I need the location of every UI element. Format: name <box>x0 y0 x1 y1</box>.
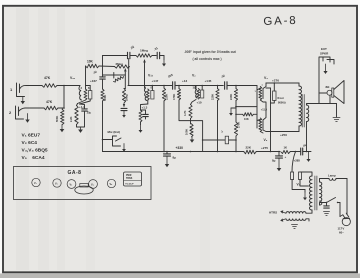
svg-text:+285: +285 <box>294 159 301 163</box>
svg-text:V₂: V₂ <box>55 183 58 186</box>
svg-text:60~: 60~ <box>339 231 344 235</box>
wire to bus <box>102 112 104 152</box>
svg-text:HTRS: HTRS <box>269 211 277 215</box>
core <box>314 176 316 210</box>
svg-text:.005″ input given for 3½watts: .005″ input given for 3½watts out <box>184 50 237 54</box>
svg-text:( all controls max ): ( all controls max ) <box>193 57 222 61</box>
svg-text:4.7K: 4.7K <box>183 110 187 116</box>
ground at tone cap <box>163 56 165 60</box>
AC plug <box>343 213 349 218</box>
svg-text:PWR: PWR <box>126 175 132 177</box>
core <box>301 95 303 128</box>
V1a cathode network 2.2K + 25uF <box>78 100 86 104</box>
bottom grey strip outside frame <box>0 274 360 278</box>
svg-text:+276: +276 <box>272 79 279 83</box>
svg-text:22K: 22K <box>246 146 252 150</box>
svg-text:2.2K: 2.2K <box>69 116 73 122</box>
svg-text:V₃,V₄ 6BQ5: V₃,V₄ 6BQ5 <box>22 148 48 154</box>
wire to node <box>57 85 64 87</box>
screen resistor box <box>273 91 276 101</box>
resistor 220K plate V2 <box>217 85 219 87</box>
heater winding <box>286 212 306 214</box>
svg-text:+11.5: +11.5 <box>261 108 268 111</box>
upper link wire <box>236 106 257 108</box>
svg-text:+167: +167 <box>90 79 97 83</box>
ground of divider <box>230 108 232 113</box>
svg-text:GA-8: GA-8 <box>68 170 82 176</box>
wire J-node to V1a <box>64 85 80 87</box>
svg-text:10K: 10K <box>87 60 94 64</box>
screen bus vertical <box>270 88 272 152</box>
svg-text:+1.3: +1.3 <box>142 106 148 110</box>
V1a plate riser <box>85 66 87 86</box>
svg-text:EXT: EXT <box>321 47 327 51</box>
wiper arrow of 1 Meg to V1b grid <box>144 61 146 89</box>
svg-text:V₃: V₃ <box>70 184 73 187</box>
divider tap wire to bus <box>191 121 203 152</box>
resistor 220K divider <box>235 85 237 87</box>
wiper of 2 Meg <box>124 72 126 89</box>
speaker cutout oval <box>75 186 93 194</box>
svg-text:25μ: 25μ <box>87 112 92 115</box>
ground below 500K <box>61 125 63 130</box>
svg-text:+250: +250 <box>280 133 287 137</box>
secondary <box>307 105 309 122</box>
svg-text:1Meg: 1Meg <box>140 49 148 53</box>
chassis layout box <box>14 167 152 200</box>
tube socket V5 <box>107 179 115 187</box>
speaker return and earth ground <box>329 95 331 103</box>
power switch <box>320 203 327 206</box>
resistor 470K <box>178 85 180 87</box>
svg-text:V₁: V₁ <box>34 182 37 185</box>
svg-text:8μ: 8μ <box>173 156 177 160</box>
diagonal resistor <box>114 77 124 83</box>
tube socket V4 <box>89 180 98 189</box>
svg-text:8μ: 8μ <box>272 159 276 163</box>
svg-text:220K: 220K <box>210 94 214 100</box>
svg-text:470K: 470K <box>172 94 176 100</box>
svg-text:V₅: V₅ <box>110 183 113 186</box>
svg-text:8000Ω: 8000Ω <box>278 101 286 105</box>
svg-text:TO-26-P: TO-26-P <box>125 184 134 186</box>
svg-text:V₅ 6CA4: V₅ 6CA4 <box>22 155 45 161</box>
output transformer T2 primary <box>298 83 300 86</box>
coupling .1 box cap line <box>203 139 225 141</box>
line bypass cap with ground <box>326 203 328 206</box>
svg-text:+10: +10 <box>197 101 202 105</box>
svg-text:+330: +330 <box>176 146 184 150</box>
svg-text:+275: +275 <box>261 146 268 150</box>
svg-text:Mic (Ext): Mic (Ext) <box>108 130 121 134</box>
power transformer box <box>124 172 142 186</box>
svg-text:+145: +145 <box>205 79 212 83</box>
25uF bypass cap <box>143 113 149 115</box>
tube socket V1 <box>32 178 40 186</box>
svg-text:SPKR: SPKR <box>320 51 329 55</box>
svg-text:47K: 47K <box>46 100 53 104</box>
filter cap 8uF on bus <box>166 152 168 154</box>
ground at J2 <box>27 114 29 120</box>
svg-text:+13: +13 <box>182 79 187 83</box>
V5 to HV winding <box>292 180 305 190</box>
svg-text:V₃: V₃ <box>264 76 268 80</box>
svg-text:47K: 47K <box>44 76 51 80</box>
svg-text:+: + <box>285 155 287 159</box>
svg-text:GA-8: GA-8 <box>263 15 297 28</box>
svg-text:V₂ 6C4: V₂ 6C4 <box>22 140 38 146</box>
svg-text:V₄: V₄ <box>264 138 268 142</box>
svg-text:1K: 1K <box>284 146 288 150</box>
svg-text:V₁ 6EU7: V₁ 6EU7 <box>22 133 41 139</box>
plate wire row <box>128 67 130 86</box>
riser from top chain <box>102 56 104 77</box>
ground under 100K <box>191 137 193 140</box>
svg-text:Lamp: Lamp <box>328 174 336 178</box>
tube socket V3 <box>67 180 76 189</box>
svg-text:R out: R out <box>278 96 284 100</box>
ground at J1 <box>22 97 24 102</box>
svg-text:100K: 100K <box>185 129 189 135</box>
svg-text:220K: 220K <box>229 94 233 100</box>
svg-text:TRNS: TRNS <box>126 178 133 180</box>
svg-text:10K: 10K <box>244 117 249 121</box>
svg-text:V₂: V₂ <box>192 74 196 78</box>
V1b cathode chain <box>147 100 149 104</box>
svg-text:500K: 500K <box>55 116 59 122</box>
power transformer T1 HV secondary <box>305 185 309 187</box>
secondary lower lead <box>306 122 308 152</box>
cap to ground <box>121 107 127 109</box>
HV center tap ground <box>304 190 306 193</box>
primary winding <box>320 182 322 205</box>
tube socket V2 <box>53 179 61 187</box>
svg-text:+147: +147 <box>152 79 159 83</box>
plate resistor 220K to bus <box>163 85 165 87</box>
rectifier V5 plates <box>292 152 296 173</box>
B+ bus wire <box>103 151 245 153</box>
junction wire <box>103 74 126 76</box>
svg-text:V₁ₖ: V₁ₖ <box>148 74 154 78</box>
filter cap 8uF (2) <box>278 152 280 156</box>
top chain wire <box>103 55 128 57</box>
ext speaker jack <box>319 57 334 104</box>
svg-text:V₁ₐ: V₁ₐ <box>70 76 76 80</box>
